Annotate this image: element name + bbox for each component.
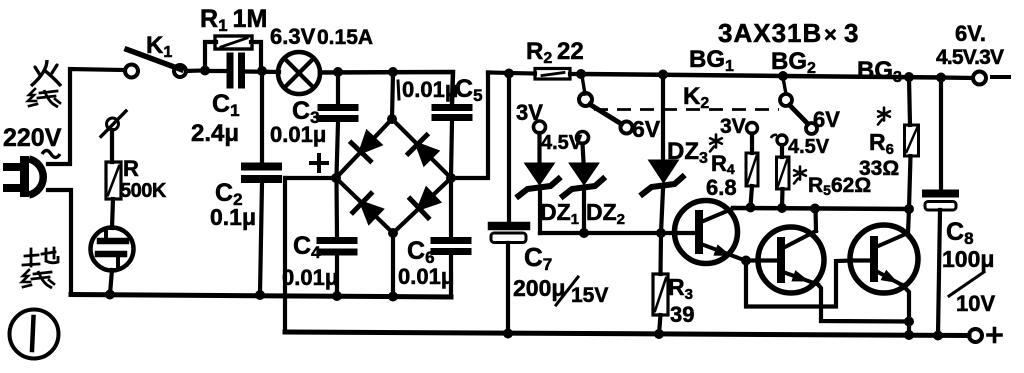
wire lamp to bridge-top rail bbox=[320, 72, 453, 104]
terminal plus output bbox=[969, 329, 1001, 343]
wire DZ3 top lead bbox=[661, 76, 665, 159]
wire DZ3 to base node bbox=[661, 189, 663, 233]
transistor BG1 bbox=[675, 201, 745, 264]
capacitor C4 lead bbox=[334, 180, 339, 237]
wire R500K to neon lamp bbox=[112, 199, 113, 228]
label C4 0.01u bbox=[282, 232, 338, 290]
node BG2 collector junction bbox=[810, 204, 820, 214]
svg-text:R2 22: R2 22 bbox=[526, 38, 584, 67]
svg-text:C5: C5 bbox=[455, 75, 483, 105]
terminal minus output bbox=[973, 72, 1009, 85]
node K2a junction bbox=[576, 69, 586, 79]
node bridge right corner bbox=[446, 173, 456, 183]
wire C3 to bridge left corner bbox=[337, 122, 339, 176]
bridge diode D3 bottom-left bbox=[336, 178, 393, 233]
label plus at bridge bbox=[311, 155, 327, 171]
neon lamp bbox=[91, 228, 134, 271]
label R1 1M bbox=[200, 5, 267, 35]
label R4 6.8 bbox=[706, 151, 737, 200]
lamp 6.3V 0.15A bbox=[278, 52, 320, 94]
wire neon to ground rail bbox=[110, 270, 112, 294]
label R 500K bbox=[120, 156, 167, 202]
wire BG2 base lead bbox=[746, 258, 779, 262]
node DZ2 bus junction bbox=[579, 228, 589, 238]
label BG1 bbox=[689, 46, 734, 75]
linkage dashed line K2 bbox=[594, 108, 779, 111]
zener diode DZ1 bbox=[519, 163, 559, 196]
wire plus column down bbox=[283, 178, 287, 332]
label BG3 bbox=[857, 57, 902, 86]
wire BG2 collector up bbox=[813, 209, 818, 232]
wire C6 to ground rail end bbox=[449, 255, 453, 296]
resistor R3 bbox=[653, 274, 668, 315]
label C7 200u/15V bbox=[513, 242, 608, 307]
label 3V left bbox=[516, 100, 543, 125]
svg-text:0.1μ: 0.1μ bbox=[210, 204, 256, 230]
node emitter bus junction bbox=[904, 330, 914, 340]
wire node A to C1 bbox=[205, 69, 225, 73]
node C2-ground junction bbox=[255, 290, 265, 300]
node C3 junction bbox=[333, 67, 343, 77]
capacitor C8 electrolytic bbox=[925, 194, 956, 211]
wire negative rail middle bbox=[581, 74, 783, 76]
svg-text:C6: C6 bbox=[407, 237, 435, 267]
wire 4.5V contact to DZ2 bbox=[583, 144, 584, 163]
wire BG3 emitter down bbox=[903, 286, 909, 322]
wire R1 branch up-left bbox=[205, 42, 216, 69]
svg-text:3AX31B: 3AX31B bbox=[718, 18, 822, 48]
wire base node to R3 bbox=[658, 233, 663, 274]
switch K1 bbox=[125, 50, 186, 78]
svg-text:500K: 500K bbox=[120, 180, 167, 202]
svg-text:DZ2: DZ2 bbox=[586, 199, 625, 228]
svg-text:R1 1M: R1 1M bbox=[200, 5, 267, 35]
wire bridge left to plus column bbox=[285, 176, 336, 180]
zener diode DZ3 bbox=[643, 160, 683, 194]
wire C4 to ground rail bbox=[335, 255, 339, 294]
label 6.3V 0.15A bbox=[270, 24, 373, 49]
svg-text:C8: C8 bbox=[946, 218, 974, 248]
label R5 62ohm bbox=[808, 174, 871, 198]
svg-text:2.4μ: 2.4μ bbox=[191, 120, 239, 147]
svg-text:C7: C7 bbox=[524, 242, 552, 274]
node C7 top junction bbox=[504, 69, 514, 79]
wire zener bus bbox=[540, 231, 661, 235]
resistor R1 bbox=[215, 36, 252, 49]
svg-text:BG3: BG3 bbox=[857, 57, 902, 86]
node R6 junction bbox=[904, 72, 914, 82]
wire hot from plug to K1 bbox=[48, 69, 125, 164]
bridge diode D2 top-right bbox=[392, 119, 451, 178]
svg-text:R: R bbox=[123, 156, 139, 181]
star mark R4 bbox=[710, 135, 722, 152]
capacitor C6 bbox=[434, 241, 468, 252]
svg-text:R4: R4 bbox=[711, 151, 735, 177]
wire negative rail right bbox=[783, 76, 941, 78]
node bridge-bottom-ground junction bbox=[388, 292, 398, 302]
svg-text:39: 39 bbox=[670, 302, 694, 327]
wire 4.5V contact to R5 bbox=[780, 145, 784, 157]
svg-text:100μ: 100μ bbox=[942, 246, 994, 272]
node B junction after C1 bbox=[257, 66, 267, 76]
switch K2 pole1 bbox=[579, 76, 633, 134]
svg-text:0.01μ: 0.01μ bbox=[270, 122, 326, 147]
svg-text:DZ1: DZ1 bbox=[540, 199, 579, 228]
resistor R6 bbox=[905, 125, 919, 156]
star mark R5 bbox=[794, 167, 806, 184]
label K2 bbox=[683, 83, 709, 112]
wire to minus terminal bbox=[941, 75, 973, 80]
wire DZ2 to zener bus bbox=[582, 192, 586, 233]
label ground line (di xian) bbox=[22, 248, 58, 288]
label 3V right bbox=[720, 115, 746, 138]
node R6 bus junction bbox=[904, 204, 914, 214]
contact 4.5V pole2 bbox=[771, 135, 787, 145]
svg-text:BG1: BG1 bbox=[689, 46, 734, 75]
wire R6 to collector bus node bbox=[909, 156, 911, 209]
label hot line (huo xian) bbox=[28, 60, 61, 107]
switch K2 pole2 bbox=[780, 78, 817, 134]
capacitor C6 lead bbox=[449, 179, 453, 237]
wire C5 to bridge right corner bbox=[451, 121, 452, 177]
label C6 0.01u bbox=[398, 237, 454, 289]
wire C7 lead bbox=[507, 74, 511, 221]
wire C3 branch bbox=[336, 73, 340, 104]
label 6V pole2 bbox=[813, 107, 840, 132]
node A junction bbox=[200, 66, 210, 76]
svg-text:220V: 220V bbox=[3, 124, 62, 152]
wire probe to R500K bbox=[110, 130, 114, 162]
capacitor C1 bbox=[230, 56, 242, 85]
label 3AX31B x3 bbox=[718, 18, 858, 48]
node BG1 emitter junction bbox=[741, 256, 751, 266]
wire C8 top lead bbox=[939, 79, 943, 190]
svg-text:R6: R6 bbox=[869, 129, 894, 158]
node C8 junction bbox=[936, 73, 946, 83]
wire BG3 collector up bbox=[908, 209, 909, 233]
node bridge-top rail junction bbox=[388, 67, 398, 77]
capacitor C2 bbox=[245, 167, 278, 180]
wire ground rail bbox=[71, 295, 451, 298]
node C4-ground junction bbox=[332, 291, 342, 301]
svg-text:K1: K1 bbox=[146, 32, 172, 61]
svg-text:K2: K2 bbox=[683, 83, 709, 112]
resistor R5 bbox=[777, 157, 790, 189]
figure number 1 bbox=[10, 310, 59, 359]
wire C7 to plus bus bbox=[506, 243, 510, 334]
svg-text:C4: C4 bbox=[293, 232, 321, 262]
capacitor C4 bbox=[320, 241, 354, 253]
wire base node to BG1 bbox=[661, 231, 695, 235]
probe contact symbol bbox=[101, 111, 126, 137]
node C7 plus junction bbox=[503, 329, 513, 339]
svg-text:6.8: 6.8 bbox=[706, 175, 737, 200]
svg-text:200μ: 200μ bbox=[513, 275, 565, 301]
wire R4 to collector bus bbox=[751, 186, 753, 206]
wire plus bus bbox=[285, 332, 969, 336]
node emitter junction bbox=[904, 317, 914, 327]
svg-text:0.01μ: 0.01μ bbox=[398, 264, 454, 289]
resistor R 500K bbox=[106, 162, 121, 199]
label 6V 4.5V 3V bbox=[936, 21, 1004, 69]
node bridge left corner bbox=[331, 173, 341, 183]
wire DZ1 to zener bus bbox=[538, 192, 542, 233]
svg-text:0.15A: 0.15A bbox=[317, 26, 373, 49]
wire bridge bottom lead bbox=[391, 234, 395, 295]
wire node B down to C2 bbox=[260, 72, 264, 163]
capacitor C7 electrolytic bbox=[491, 226, 526, 243]
bridge diode D4 bottom-right bbox=[393, 178, 451, 233]
capacitor C5 bbox=[435, 108, 469, 118]
wire K1 to R1C1 node bbox=[186, 68, 202, 73]
contact 3V bbox=[534, 121, 546, 133]
label C8 100u/10V bbox=[942, 218, 995, 316]
label DZ1 bbox=[540, 199, 579, 228]
svg-text:10V: 10V bbox=[956, 291, 995, 316]
zener diode DZ2 bbox=[563, 163, 603, 196]
node R5 bus junction bbox=[777, 203, 787, 213]
wire bridge top lead bbox=[392, 73, 393, 119]
AC plug 220V bbox=[3, 156, 43, 197]
label 4.5V right bbox=[788, 136, 830, 158]
wire R3 to plus bus bbox=[659, 315, 661, 334]
contact 4.5V bbox=[577, 132, 589, 144]
node R3 plus junction bbox=[654, 329, 664, 339]
label 4.5V left bbox=[541, 132, 583, 154]
node bridge bottom corner bbox=[388, 228, 398, 238]
label DZ2 bbox=[586, 199, 625, 228]
wire negative rail to R2 bbox=[488, 73, 535, 74]
wire 3V contact to DZ1 bbox=[537, 133, 541, 162]
svg-text:15V: 15V bbox=[571, 284, 608, 307]
label 6V pole1 bbox=[632, 116, 661, 142]
node neon-ground junction bbox=[105, 290, 115, 300]
node bridge top corner bbox=[387, 114, 397, 124]
wire BG3 base lead bbox=[850, 258, 872, 262]
wire R2 to K2 node bbox=[570, 72, 583, 76]
svg-text:C1: C1 bbox=[212, 90, 240, 120]
collector bus bbox=[733, 208, 909, 209]
node K2b junction bbox=[778, 71, 788, 81]
label K1 bbox=[146, 32, 172, 61]
svg-text:0.01μ: 0.01μ bbox=[282, 265, 338, 290]
contact 3V pole2 bbox=[747, 123, 758, 134]
label DZ3 bbox=[667, 138, 708, 167]
star mark R6 bbox=[878, 108, 890, 125]
wire R6 top lead bbox=[909, 77, 910, 125]
wire emitter node to plus bus bbox=[907, 322, 911, 336]
label R2 22 bbox=[526, 38, 584, 67]
svg-text:DZ3: DZ3 bbox=[667, 138, 708, 167]
label R6 33ohm bbox=[859, 129, 899, 180]
wire C1 to lamp bbox=[246, 69, 279, 74]
label C5 0.01u bbox=[398, 75, 483, 105]
wire A BG1 emitter to BG3 base bbox=[746, 261, 852, 307]
label C3 0.01u bbox=[270, 97, 326, 147]
label C1 2.4u bbox=[191, 90, 240, 147]
resistor R4 bbox=[746, 153, 758, 186]
transistor BG2 bbox=[758, 227, 824, 293]
svg-text:4.5V: 4.5V bbox=[788, 136, 830, 158]
label 220V~ bbox=[3, 124, 62, 158]
wire bridge right corner to neg rail bbox=[451, 73, 488, 179]
capacitor C3 bbox=[321, 108, 355, 119]
svg-text:×: × bbox=[824, 22, 837, 47]
bridge diode D1 top-left bbox=[336, 119, 392, 178]
svg-text:BG2: BG2 bbox=[771, 48, 816, 77]
svg-text:3V: 3V bbox=[516, 100, 543, 125]
svg-text:0.01μ: 0.01μ bbox=[402, 77, 458, 102]
svg-text:3: 3 bbox=[844, 18, 858, 48]
node R4 bus junction bbox=[746, 203, 756, 213]
label C2 0.1u bbox=[210, 179, 256, 230]
svg-text:6V.: 6V. bbox=[955, 21, 986, 46]
wire R5 to collector bus bbox=[780, 189, 785, 208]
wire R1 branch down-right bbox=[251, 42, 261, 69]
svg-text:3V: 3V bbox=[720, 115, 746, 138]
wire C2 to ground rail bbox=[260, 183, 262, 294]
wire C8 to plus bus bbox=[938, 210, 940, 335]
svg-text:4.5V.3V: 4.5V.3V bbox=[936, 46, 1004, 69]
label R3 39 bbox=[668, 274, 694, 327]
node base junction bbox=[656, 228, 666, 238]
svg-text:6V: 6V bbox=[632, 116, 661, 142]
label BG2 bbox=[771, 48, 816, 77]
svg-text:6V: 6V bbox=[813, 107, 840, 132]
wire neutral from plug bbox=[48, 190, 71, 295]
svg-text:R3: R3 bbox=[668, 274, 693, 303]
wire B BG2 emitter to emitter node bbox=[818, 285, 909, 322]
resistor R2 bbox=[535, 69, 570, 80]
transistor BG3 bbox=[850, 225, 918, 293]
node DZ3 junction bbox=[658, 70, 668, 80]
node C8 plus junction bbox=[933, 331, 943, 341]
wire 3V contact to R4 bbox=[750, 134, 754, 154]
svg-text:33Ω: 33Ω bbox=[859, 157, 899, 180]
svg-text:6.3V: 6.3V bbox=[270, 24, 316, 49]
